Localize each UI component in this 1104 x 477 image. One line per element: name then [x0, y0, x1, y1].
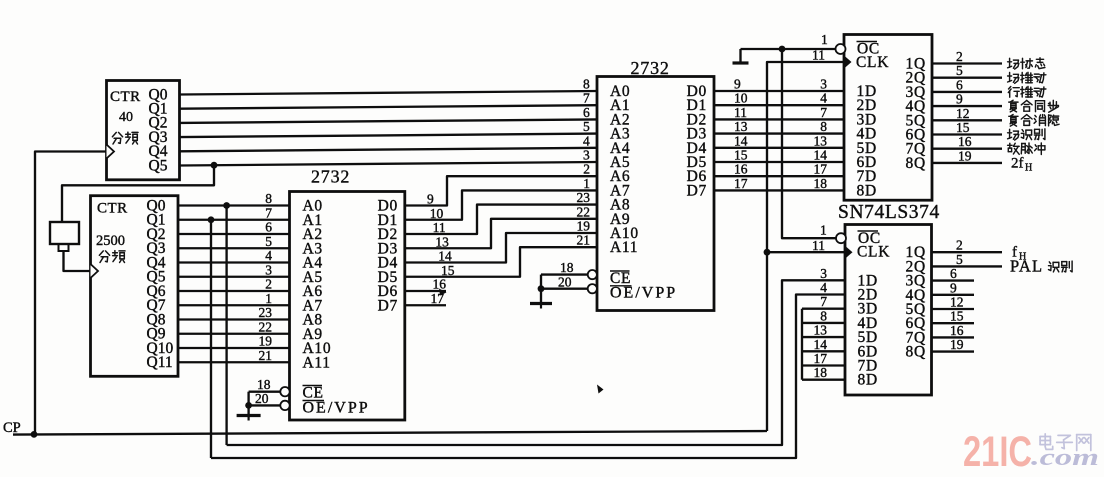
svg-text:16: 16 — [958, 134, 972, 149]
wire D6 of U4 (pin 16) to 7D of U5 (pin 17) — [714, 175, 844, 177]
svg-text:OE/VPP: OE/VPP — [303, 400, 370, 417]
wire Q5 of U2 to A5 of U3 (pin 3) — [178, 276, 290, 278]
wire D5 of U4 (pin 15) to 6D of U5 (pin 14) — [714, 161, 844, 163]
svg-text:8D: 8D — [857, 182, 877, 199]
svg-text:9: 9 — [950, 280, 957, 295]
svg-text:7: 7 — [820, 294, 827, 309]
svg-text:4: 4 — [583, 133, 590, 148]
svg-text:10: 10 — [430, 206, 444, 221]
svg-text:2732: 2732 — [631, 58, 670, 78]
wire CE/OE-VPP tie of U4 (pins 18,20) to ground — [541, 260, 588, 290]
svg-text:SN74LS374: SN74LS374 — [838, 202, 940, 223]
wire Q0 of U1 to A0 of U4 (pin 8) — [180, 91, 598, 95]
node tie junction U4 — [538, 285, 545, 292]
wire Q1 down-run to bottom bus — [210, 220, 212, 458]
wire CP riser to 40-divider clock input — [35, 152, 107, 435]
svg-text:23: 23 — [577, 190, 591, 205]
wire ground net to OC pins of U5 and U6 — [741, 48, 837, 50]
label output 1Q of U5 — [1008, 58, 1045, 69]
svg-text:1: 1 — [820, 223, 827, 238]
wire D7 of U4 (pin 17) to 8D of U5 (pin 18) — [714, 189, 844, 191]
svg-text:18: 18 — [814, 176, 828, 191]
wire 3D stub of U6 — [802, 308, 845, 310]
svg-text:13: 13 — [814, 323, 828, 338]
svg-text:6: 6 — [950, 266, 957, 281]
pin bubble OE U3 — [280, 401, 289, 410]
node CP junction — [31, 431, 38, 438]
svg-text:10: 10 — [734, 91, 748, 106]
wire Q5 of U1 to divider box X1 — [62, 165, 214, 222]
divider box X1 between counters — [50, 222, 79, 244]
svg-text:1: 1 — [583, 176, 590, 191]
wire 5D stub of U6 — [802, 336, 845, 338]
wire 6Q of U5 (pin 15) to output label — [932, 133, 1002, 135]
svg-text:18: 18 — [560, 260, 574, 275]
svg-text:A11: A11 — [610, 239, 638, 256]
ground for OC net — [739, 49, 741, 63]
wire 8D stub of U6 — [802, 379, 845, 381]
wire bottom bus Q0 to 1D of U6 — [227, 280, 845, 445]
svg-text:13: 13 — [734, 119, 748, 134]
wire D6 of U3 stub (pin 16) — [405, 290, 446, 292]
svg-text:15: 15 — [441, 263, 455, 278]
node OC net junction — [779, 46, 786, 53]
wire D3 of U3 (pin 13) staircase to A9 of U4 (pin 22) — [405, 219, 597, 248]
svg-text:CP: CP — [3, 420, 21, 436]
svg-text:4: 4 — [265, 248, 272, 263]
wire Q4 of U2 to A4 of U3 (pin 4) — [178, 261, 290, 263]
svg-text:2: 2 — [956, 49, 963, 64]
label output 7Q of U5 — [1008, 143, 1045, 155]
svg-text:1: 1 — [265, 291, 272, 306]
svg-text:3: 3 — [820, 77, 827, 92]
ground for U4 CE/OE — [540, 289, 542, 304]
svg-text:16: 16 — [950, 323, 964, 338]
svg-text:5: 5 — [956, 63, 963, 78]
svg-text:14: 14 — [734, 133, 748, 148]
wire Q0 of U2 to A0 of U3 (pin 8) — [178, 204, 290, 206]
svg-text:2732: 2732 — [311, 167, 350, 187]
wire D1 of U4 (pin 10) to 2D of U5 (pin 4) — [714, 104, 844, 106]
svg-text:8: 8 — [583, 77, 590, 92]
svg-text:11: 11 — [812, 238, 825, 253]
svg-text:6: 6 — [265, 220, 272, 235]
wire 2Q of U5 (pin 5) to output label — [932, 77, 1002, 79]
svg-text:H: H — [1025, 162, 1032, 173]
wire 2Q of U6 (pin 5) to PAL ident label — [932, 265, 1003, 267]
wire Q9 of U2 to A9 of U3 (pin 22) — [178, 333, 290, 335]
wire D7 of U3 stub (pin 17) — [405, 304, 446, 306]
svg-text:21: 21 — [577, 233, 591, 248]
svg-text:3: 3 — [820, 266, 827, 281]
wire Q6 of U2 to A6 of U3 (pin 2) — [178, 290, 290, 292]
wire Q7 of U2 to A7 of U3 (pin 1) — [178, 304, 290, 306]
wire D2 of U4 (pin 11) to 3D of U5 (pin 7) — [714, 118, 844, 120]
wire 1Q of U5 (pin 2) to output label — [932, 62, 1002, 64]
svg-text:8: 8 — [265, 191, 272, 206]
wire Q1 of U2 to A1 of U3 (pin 7) — [178, 219, 290, 221]
svg-text:22: 22 — [259, 319, 273, 334]
EPROM U3 2732 lower — [290, 167, 405, 421]
svg-text:2: 2 — [583, 162, 590, 177]
svg-text:14: 14 — [814, 337, 828, 352]
wire Q3 of U2 to A3 of U3 (pin 5) — [178, 247, 290, 249]
wire 8Q of U5 (pin 19) to output label — [932, 162, 1002, 164]
svg-text:19: 19 — [577, 219, 591, 234]
pin bubble CE U3 — [280, 387, 289, 396]
svg-text:17: 17 — [734, 176, 748, 191]
wire D4 of U3 (pin 14) staircase to A10 of U4 (pin 19) — [405, 233, 597, 263]
svg-text:17: 17 — [814, 351, 828, 366]
svg-text:5: 5 — [956, 252, 963, 267]
pin bubble CE U4 — [588, 270, 597, 279]
svg-text:6: 6 — [583, 105, 590, 120]
wire 3Q of U5 (pin 6) to output label — [932, 91, 1002, 93]
wire X1 output to 2500-divider clock input — [64, 251, 91, 271]
wire 7Q of U5 (pin 16) to output label — [932, 148, 1002, 150]
wire Q4 of U1 to A4 of U4 (pin 4) — [180, 148, 598, 152]
wire Q0 down-run to bottom bus — [225, 206, 227, 446]
wire 6Q stub of U6 (pin 15) — [932, 322, 975, 324]
wire CLK of U6 (pin 11) from clock column — [767, 251, 845, 253]
wire Q11 of U2 to A11 of U3 (pin 21) — [178, 361, 290, 363]
svg-text:13: 13 — [814, 133, 828, 148]
wire Q3 of U1 to A3 of U4 (pin 5) — [180, 134, 598, 138]
svg-text:19: 19 — [259, 334, 273, 349]
svg-text:5: 5 — [583, 119, 590, 134]
wire 4Q of U5 (pin 9) to output label — [932, 105, 1002, 107]
label output 4Q of U5 — [1009, 100, 1059, 112]
svg-text:D7: D7 — [378, 297, 398, 314]
svg-text:PAL: PAL — [1010, 256, 1043, 275]
wire 3Q stub of U6 (pin 6) — [932, 279, 975, 281]
svg-text:8Q: 8Q — [906, 155, 926, 172]
wire D5 of U3 (pin 15) staircase to A11 of U4 (pin 21) — [405, 247, 597, 277]
wire CE/OE-VPP tie of U3 (pins 18,20) to ground — [249, 377, 281, 406]
svg-text:12: 12 — [956, 106, 970, 121]
wire D0 of U3 (pin 9) staircase to A6 of U4 (pin 2) — [405, 176, 597, 205]
svg-text:CLK: CLK — [856, 54, 889, 71]
latch U6 SN74LS374 lower — [845, 225, 932, 396]
svg-text:40: 40 — [119, 110, 133, 125]
svg-text:Q5: Q5 — [149, 157, 168, 174]
wire 5Q stub of U6 (pin 12) — [932, 308, 975, 310]
svg-text:3: 3 — [583, 148, 590, 163]
wire D2 of U3 (pin 11) staircase to A8 of U4 (pin 23) — [405, 205, 597, 234]
label output 3Q of U5 — [1008, 87, 1046, 98]
pin bubble OC U5 — [836, 44, 846, 54]
wire 4Q stub of U6 (pin 9) — [932, 294, 975, 296]
svg-text:CLK: CLK — [857, 244, 890, 261]
svg-text:5: 5 — [265, 234, 272, 249]
svg-text:20: 20 — [558, 275, 572, 290]
svg-text:Q11: Q11 — [147, 354, 173, 371]
svg-text:4: 4 — [820, 91, 827, 106]
wire bottom bus Q1 to 2D of U6 — [211, 295, 845, 459]
watermark 21IC logo — [963, 428, 1099, 476]
svg-text:4: 4 — [820, 280, 827, 295]
wire Q10 of U2 to A10 of U3 (pin 19) — [178, 347, 290, 349]
svg-text:19: 19 — [950, 337, 964, 352]
EPROM U4 2732 upper — [597, 58, 714, 311]
svg-text:18: 18 — [814, 365, 828, 380]
svg-text:2f: 2f — [1011, 155, 1024, 171]
svg-text:12: 12 — [950, 295, 964, 310]
svg-text:15: 15 — [734, 148, 748, 163]
wire Q1 of U1 to A1 of U4 (pin 7) — [180, 105, 598, 109]
svg-text:CTR: CTR — [97, 201, 128, 217]
svg-text:8Q: 8Q — [906, 344, 926, 361]
svg-text:20: 20 — [255, 391, 269, 406]
wire CLK of U5 (pin 11) to clock column — [767, 62, 844, 431]
wire Q2 of U2 to A2 of U3 (pin 6) — [178, 233, 290, 235]
svg-text:8: 8 — [820, 308, 827, 323]
counter U2 CTR 2500 divider — [91, 196, 179, 377]
svg-text:.com: .com — [1031, 445, 1099, 471]
wire D0 of U4 (pin 9) to 1D of U5 (pin 3) — [714, 90, 844, 92]
svg-text:2: 2 — [265, 277, 272, 292]
svg-text:2: 2 — [956, 238, 963, 253]
label output 6Q of U5 — [1008, 129, 1045, 140]
svg-text:19: 19 — [958, 148, 972, 163]
node Q5 junction — [211, 162, 218, 169]
svg-text:1: 1 — [821, 32, 828, 47]
wire D3 of U4 (pin 13) to 4D of U5 (pin 8) — [714, 132, 844, 134]
svg-text:17: 17 — [814, 162, 828, 177]
label output 2Q of U5 — [1008, 72, 1046, 83]
svg-text:CTR: CTR — [110, 89, 141, 105]
node tie junction U3 — [245, 402, 252, 409]
wire 4D stub of U6 — [802, 322, 845, 324]
wire D4 of U4 (pin 14) to 5D of U5 (pin 13) — [714, 147, 844, 149]
svg-text:9: 9 — [734, 77, 741, 92]
svg-text:23: 23 — [259, 305, 273, 320]
svg-text:9: 9 — [427, 192, 434, 207]
svg-text:21IC: 21IC — [963, 428, 1032, 476]
svg-text:8D: 8D — [858, 372, 878, 389]
svg-text:21: 21 — [259, 348, 273, 363]
svg-text:11: 11 — [433, 220, 446, 235]
wire Q5 of U1 to A5 of U4 (pin 3) — [180, 162, 598, 166]
svg-text:7: 7 — [820, 105, 827, 120]
svg-text:7: 7 — [265, 205, 272, 220]
svg-text:22: 22 — [577, 204, 591, 219]
svg-text:15: 15 — [956, 120, 970, 135]
svg-text:2500: 2500 — [96, 233, 125, 249]
wire 7Q stub of U6 (pin 16) — [932, 336, 975, 338]
svg-text:15: 15 — [950, 309, 964, 324]
wire OC chain vertical to U6 OC — [782, 49, 837, 238]
wire CP input net: CP pad to clock riser and CLK column — [13, 431, 767, 435]
svg-text:OE/VPP: OE/VPP — [610, 285, 677, 302]
svg-text:9: 9 — [956, 92, 963, 107]
svg-text:16: 16 — [734, 162, 748, 177]
svg-text:7: 7 — [583, 91, 590, 106]
label output 5Q of U5 — [1009, 115, 1059, 127]
node Q1 junction feeding 2D chain — [208, 216, 215, 223]
svg-text:D7: D7 — [687, 182, 707, 199]
ground for U3 CE/OE — [247, 405, 249, 415]
ink speck below U3 — [597, 385, 604, 394]
wire D1 of U3 (pin 10) staircase to A7 of U4 (pin 1) — [405, 190, 597, 219]
wire 1Q of U6 (pin 2) to fH label — [932, 251, 1003, 253]
wire 5Q of U5 (pin 12) to output label — [932, 119, 1002, 121]
svg-text:18: 18 — [257, 377, 271, 392]
wire 6D stub of U6 — [802, 350, 845, 352]
wire 8Q stub of U6 (pin 19) — [932, 350, 975, 352]
wire Q8 of U2 to A8 of U3 (pin 23) — [178, 318, 290, 320]
svg-text:11: 11 — [734, 105, 747, 120]
wire 7D stub of U6 — [802, 364, 845, 366]
svg-text:6: 6 — [956, 77, 963, 92]
node Q0 junction feeding 1D chain — [223, 202, 230, 209]
svg-text:13: 13 — [435, 234, 449, 249]
counter U1 CTR 40 divider — [107, 81, 180, 180]
pin bubble OE U4 — [588, 284, 597, 293]
svg-text:14: 14 — [814, 148, 828, 163]
svg-text:8: 8 — [820, 119, 827, 134]
pin bubble OC U6 — [836, 233, 846, 243]
svg-text:11: 11 — [812, 48, 825, 63]
svg-text:A11: A11 — [303, 354, 331, 371]
svg-text:3: 3 — [265, 262, 272, 277]
wire tie bus for unused 3D-8D of U6 — [801, 309, 803, 380]
latch U5 SN74LS374 upper — [844, 35, 932, 201]
node CLK junction for U6 — [764, 249, 771, 256]
wire Q2 of U1 to A2 of U4 (pin 6) — [180, 119, 598, 123]
svg-text:14: 14 — [438, 249, 452, 264]
ink speck near D6 stub — [439, 289, 447, 296]
